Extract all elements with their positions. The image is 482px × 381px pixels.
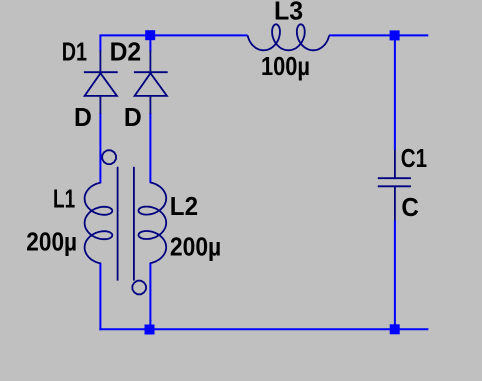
- node junction bottom mid: [145, 325, 155, 335]
- svg-text:200µ: 200µ: [170, 233, 221, 262]
- wire D2 top stub: [149, 36, 151, 52]
- diode D1: [84, 51, 118, 114]
- wire L1 bottom to bottom rail: [99, 263, 101, 331]
- svg-text:C1: C1: [401, 143, 427, 172]
- wire D2 bottom to L2 top: [149, 113, 151, 183]
- node junction top mid: [145, 30, 155, 40]
- svg-text:L1: L1: [53, 184, 75, 214]
- inductor L1 phase dot: [102, 150, 116, 164]
- capacitor C1: [378, 150, 411, 221]
- wire right vertical lower: [394, 220, 396, 329]
- inductor L3 winding: [248, 24, 330, 50]
- diode D2: [134, 51, 168, 114]
- svg-text:D: D: [74, 104, 92, 133]
- wire D1 bottom to L1 top: [99, 113, 101, 183]
- svg-text:100µ: 100µ: [261, 52, 310, 81]
- inductor L2 winding: [139, 183, 167, 264]
- wire top rail right segment: [329, 34, 428, 36]
- node junction top right: [390, 30, 400, 40]
- svg-text:D: D: [124, 104, 142, 133]
- node junction bottom right: [390, 324, 400, 334]
- wire top-left corner and top rail left segment: [100, 35, 247, 51]
- inductor L1 winding: [85, 183, 113, 264]
- svg-text:200µ: 200µ: [26, 228, 77, 257]
- inductor L2 phase dot: [132, 281, 146, 295]
- svg-text:D2: D2: [110, 38, 142, 67]
- transformer core line right: [133, 167, 135, 281]
- wire L2 bottom to bottom rail: [149, 263, 151, 330]
- svg-text:C: C: [401, 193, 418, 222]
- wire right vertical upper: [394, 35, 396, 150]
- transformer core line left: [117, 167, 119, 281]
- svg-text:D1: D1: [62, 37, 87, 66]
- svg-text:L3: L3: [274, 0, 303, 25]
- wire bottom rail: [99, 328, 428, 330]
- svg-text:L2: L2: [170, 192, 198, 221]
